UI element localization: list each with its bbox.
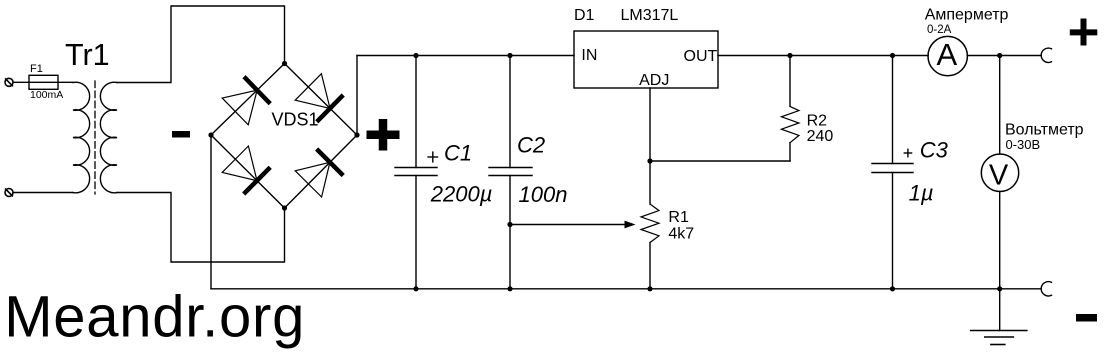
svg-text:Tr1: Tr1 xyxy=(65,38,110,72)
svg-text:R1: R1 xyxy=(668,209,689,226)
svg-text:Meandr.org: Meandr.org xyxy=(4,285,305,350)
svg-text:A: A xyxy=(937,37,958,72)
svg-text:ADJ: ADJ xyxy=(639,72,669,89)
svg-text:1µ: 1µ xyxy=(909,181,934,206)
svg-text:OUT: OUT xyxy=(684,48,718,65)
svg-text:C2: C2 xyxy=(517,133,545,158)
svg-text:F1: F1 xyxy=(30,63,43,75)
svg-text:Амперметр: Амперметр xyxy=(925,7,1009,24)
svg-text:C3: C3 xyxy=(920,137,949,162)
svg-text:100n: 100n xyxy=(519,182,568,207)
svg-text:R2: R2 xyxy=(807,112,828,129)
svg-text:100mA: 100mA xyxy=(30,89,63,101)
svg-text:240: 240 xyxy=(807,128,834,145)
svg-text:IN: IN xyxy=(581,47,597,64)
svg-text:C1: C1 xyxy=(444,141,472,166)
svg-text:LM317L: LM317L xyxy=(621,7,679,24)
svg-text:Вольтметр: Вольтметр xyxy=(1005,122,1084,139)
svg-text:0-2A: 0-2A xyxy=(927,24,952,36)
svg-text:4k7: 4k7 xyxy=(668,226,694,243)
svg-text:2200µ: 2200µ xyxy=(430,182,493,207)
svg-text:0-30В: 0-30В xyxy=(1006,137,1041,152)
svg-text:V: V xyxy=(989,159,1009,191)
svg-text:D1: D1 xyxy=(574,7,595,24)
svg-text:VDS1: VDS1 xyxy=(272,110,319,130)
